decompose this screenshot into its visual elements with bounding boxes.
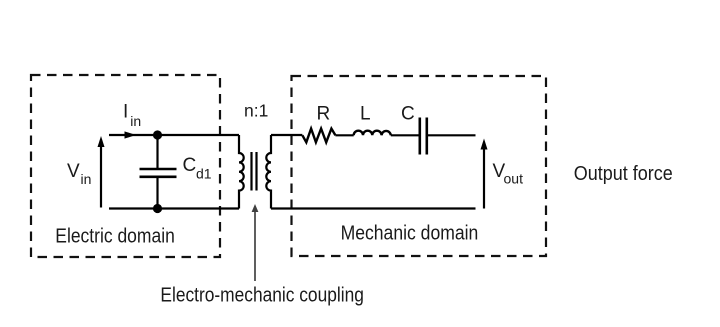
capacitor Cd1 xyxy=(140,135,177,209)
arrow Iin on top wire xyxy=(125,131,137,138)
svg-text:L: L xyxy=(360,103,371,124)
transformer core xyxy=(250,152,252,191)
svg-text:Electro-mechanic coupling: Electro-mechanic coupling xyxy=(160,284,364,307)
svg-text:C: C xyxy=(401,104,415,125)
wire bottom-right xyxy=(271,207,476,209)
svg-text:I: I xyxy=(123,102,128,123)
transformer secondary coil xyxy=(266,135,271,209)
node dot bottom xyxy=(153,204,162,213)
dashed box Electric domain xyxy=(31,75,220,257)
svg-text:n:1: n:1 xyxy=(244,101,268,121)
svg-text:C: C xyxy=(183,155,197,176)
svg-text:Electric domain: Electric domain xyxy=(55,225,175,248)
wire R to L xyxy=(335,134,353,136)
inductor L xyxy=(354,131,391,136)
resistor R xyxy=(302,129,335,143)
arrow electro-mechanic coupling xyxy=(252,204,259,281)
node dot top xyxy=(153,130,162,139)
svg-text:out: out xyxy=(504,171,524,187)
arrow Vin xyxy=(98,136,105,208)
arrow Vout xyxy=(481,139,488,209)
wire L to C xyxy=(391,134,420,136)
svg-text:Mechanic domain: Mechanic domain xyxy=(341,222,479,245)
svg-text:Output force: Output force xyxy=(574,162,673,185)
wire C to output xyxy=(427,134,476,136)
svg-text:R: R xyxy=(317,104,331,125)
svg-text:d1: d1 xyxy=(196,166,212,182)
dashed box Mechanic domain xyxy=(292,76,547,256)
wire bottom-left xyxy=(109,207,239,209)
transformer primary coil xyxy=(239,135,244,209)
wire top-left (input port to transformer primary) xyxy=(109,134,239,136)
svg-text:in: in xyxy=(130,113,141,129)
svg-text:in: in xyxy=(81,171,92,187)
svg-text:V: V xyxy=(67,161,80,182)
wire secondary top to R xyxy=(271,134,302,136)
capacitor C xyxy=(418,118,421,155)
